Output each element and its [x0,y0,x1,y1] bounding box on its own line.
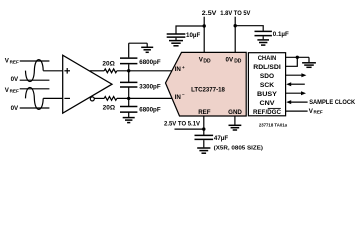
wire OVDD supply [234,17,236,53]
wire SDO output arrow [286,74,302,76]
node VREF label source 2 [5,87,19,94]
label X5R 0805 SIZE [214,146,263,152]
svg-text:20Ω: 20Ω [103,105,115,112]
resistor R2 20 ohm bottom [104,97,117,101]
svg-text:REF: REF [198,109,211,116]
svg-text:BUSY: BUSY [257,91,278,98]
label C6 47uF [214,135,228,142]
svg-text:+: + [182,65,185,70]
svg-text:SDO: SDO [260,73,274,80]
label 2.5V supply [202,10,218,17]
IC U1 LTC2377-18 body [166,52,247,116]
svg-text:47µF: 47µF [214,135,228,142]
label U1 LTC2377-18 [191,87,225,94]
capacitor C1 6800pF top [128,64,130,71]
wire top output [90,70,105,72]
wire R1 to IN+ [117,70,172,72]
capacitor C2 3300pF differential [128,71,130,82]
svg-text:237718 TA01a: 237718 TA01a [259,123,288,128]
ground G7 GND pin [229,124,242,126]
svg-text:10µF: 10µF [186,32,200,39]
wire R2 to IN- [117,97,172,99]
svg-text:0V: 0V [11,105,19,112]
wire REF input [175,128,204,130]
svg-text:6800pF: 6800pF [139,59,161,66]
ground G2 top filter [146,43,148,47]
node VREF label source 1 [5,58,19,65]
node junction IN- filter [127,97,130,100]
svg-text:CNV: CNV [260,100,276,107]
node junction IN+ filter [127,69,130,72]
label C5 0.1uF [273,31,289,38]
wire CNV input arrow from sample clock [291,101,308,103]
wire to 0.1uF [235,26,263,31]
svg-text:REF: REF [10,59,19,64]
svg-text:20Ω: 20Ω [102,60,114,67]
wire BUSY output arrow [286,92,302,94]
source V1 VREF level line [20,60,50,62]
pin label VDD [199,57,211,65]
op-amp A1 fully differential driver [63,55,112,113]
svg-text:0.1µF: 0.1µF [273,31,289,38]
svg-text:REF: REF [314,110,323,115]
node junction OVDD bypass [234,24,237,27]
label C1 6800pF [139,59,161,66]
wire C1 to ground jog [129,42,148,44]
node 0V label source 1 [11,76,19,83]
wire CHAIN pin [286,56,309,58]
label SAMPLE CLOCK [309,99,355,106]
overline DGC [268,107,281,109]
pin label SDO [260,73,274,80]
IC U1 digital pin box [248,53,285,116]
pin label IN- [175,92,185,101]
svg-text:RDL/SDI: RDL/SDI [253,64,281,71]
ground G3 bottom filter [123,117,135,119]
svg-text:3300pF: 3300pF [139,83,161,90]
svg-text:IN: IN [175,94,182,101]
node 0V label source 2 [11,105,19,112]
capacitor C3 6800pF bottom [128,98,130,106]
capacitor C5 0.1uF [255,30,272,32]
svg-text:REF: REF [10,89,19,94]
wire noninverting input [43,70,63,72]
svg-text:0V: 0V [11,76,19,83]
pin label CHAIN [258,55,277,62]
svg-text:GND: GND [228,109,242,116]
svg-text:1.8V TO 5V: 1.8V TO 5V [220,10,251,17]
svg-text:REF/DGC: REF/DGC [253,109,281,116]
pin label RDL/SDI [253,64,281,71]
svg-text:0V: 0V [226,57,234,64]
ground G4 0.1uF [257,39,269,41]
label R2 20 ohm [103,105,115,112]
svg-text:CHAIN: CHAIN [258,55,277,62]
pin label CNV [260,100,276,107]
svg-text:LTC2377-18: LTC2377-18 [191,87,225,94]
svg-text:2.5V TO 5.1V: 2.5V TO 5.1V [164,121,201,128]
ground G1 10uF [169,40,183,42]
label C3 6800pF [139,106,161,113]
svg-text:DD: DD [203,59,211,65]
pin label SCK [260,82,274,89]
op-amp plus sign [64,70,70,72]
ground G5 chain [308,57,310,62]
svg-text:–: – [182,92,185,97]
svg-text:6800pF: 6800pF [139,106,161,113]
node junction REF [202,127,205,130]
wire VDD supply [203,17,205,53]
resistor R1 20 ohm top [104,69,117,73]
capacitor C6 47uF [195,134,214,136]
node junction VDD bypass [203,24,206,27]
source V1 sine wave [26,60,44,82]
wire RDL/SDI pin [286,57,298,66]
pin label REF/DGC [253,109,281,116]
pin label GND [228,109,242,116]
op-amp inverted output bubble [90,97,94,101]
ground G6 47uF [197,147,210,149]
wire to 10uF [176,26,204,34]
wire inverting input [43,97,63,99]
wire SCK input arrow [291,83,305,85]
node VREF right label [309,108,323,115]
svg-text:DD: DD [234,59,242,65]
wire REF pin vertical [203,116,205,135]
svg-text:(X5R, 0805 SIZE): (X5R, 0805 SIZE) [214,146,263,152]
op-amp minus sign [64,97,70,99]
source V1 0V level line [20,79,50,81]
pin label REF [198,109,211,116]
source V2 VREF level line [20,88,50,90]
wire GND pin [234,116,236,125]
svg-text:SAMPLE CLOCK: SAMPLE CLOCK [309,99,355,106]
pin label OVDD [226,57,242,65]
source V2 0V level line [20,107,50,109]
capacitor C4 10uF [167,33,186,35]
label 1.8V TO 5V supply [220,10,251,17]
source V2 sine wave [26,87,44,109]
svg-text:SCK: SCK [260,82,274,89]
label R1 20 ohm [102,60,114,67]
label C2 3300pF [139,83,161,90]
wire REF/DGC to VREF [286,110,308,112]
pin label BUSY [257,91,278,98]
svg-text:2.5V: 2.5V [202,10,218,17]
label part number note [259,123,288,128]
label 2.5V TO 5.1V [164,121,201,128]
node junction CHAIN RDL [296,56,299,59]
wire bottom output [94,97,104,99]
pin label IN+ [175,65,185,73]
label C4 10uF [186,32,200,39]
svg-text:IN: IN [175,66,182,73]
